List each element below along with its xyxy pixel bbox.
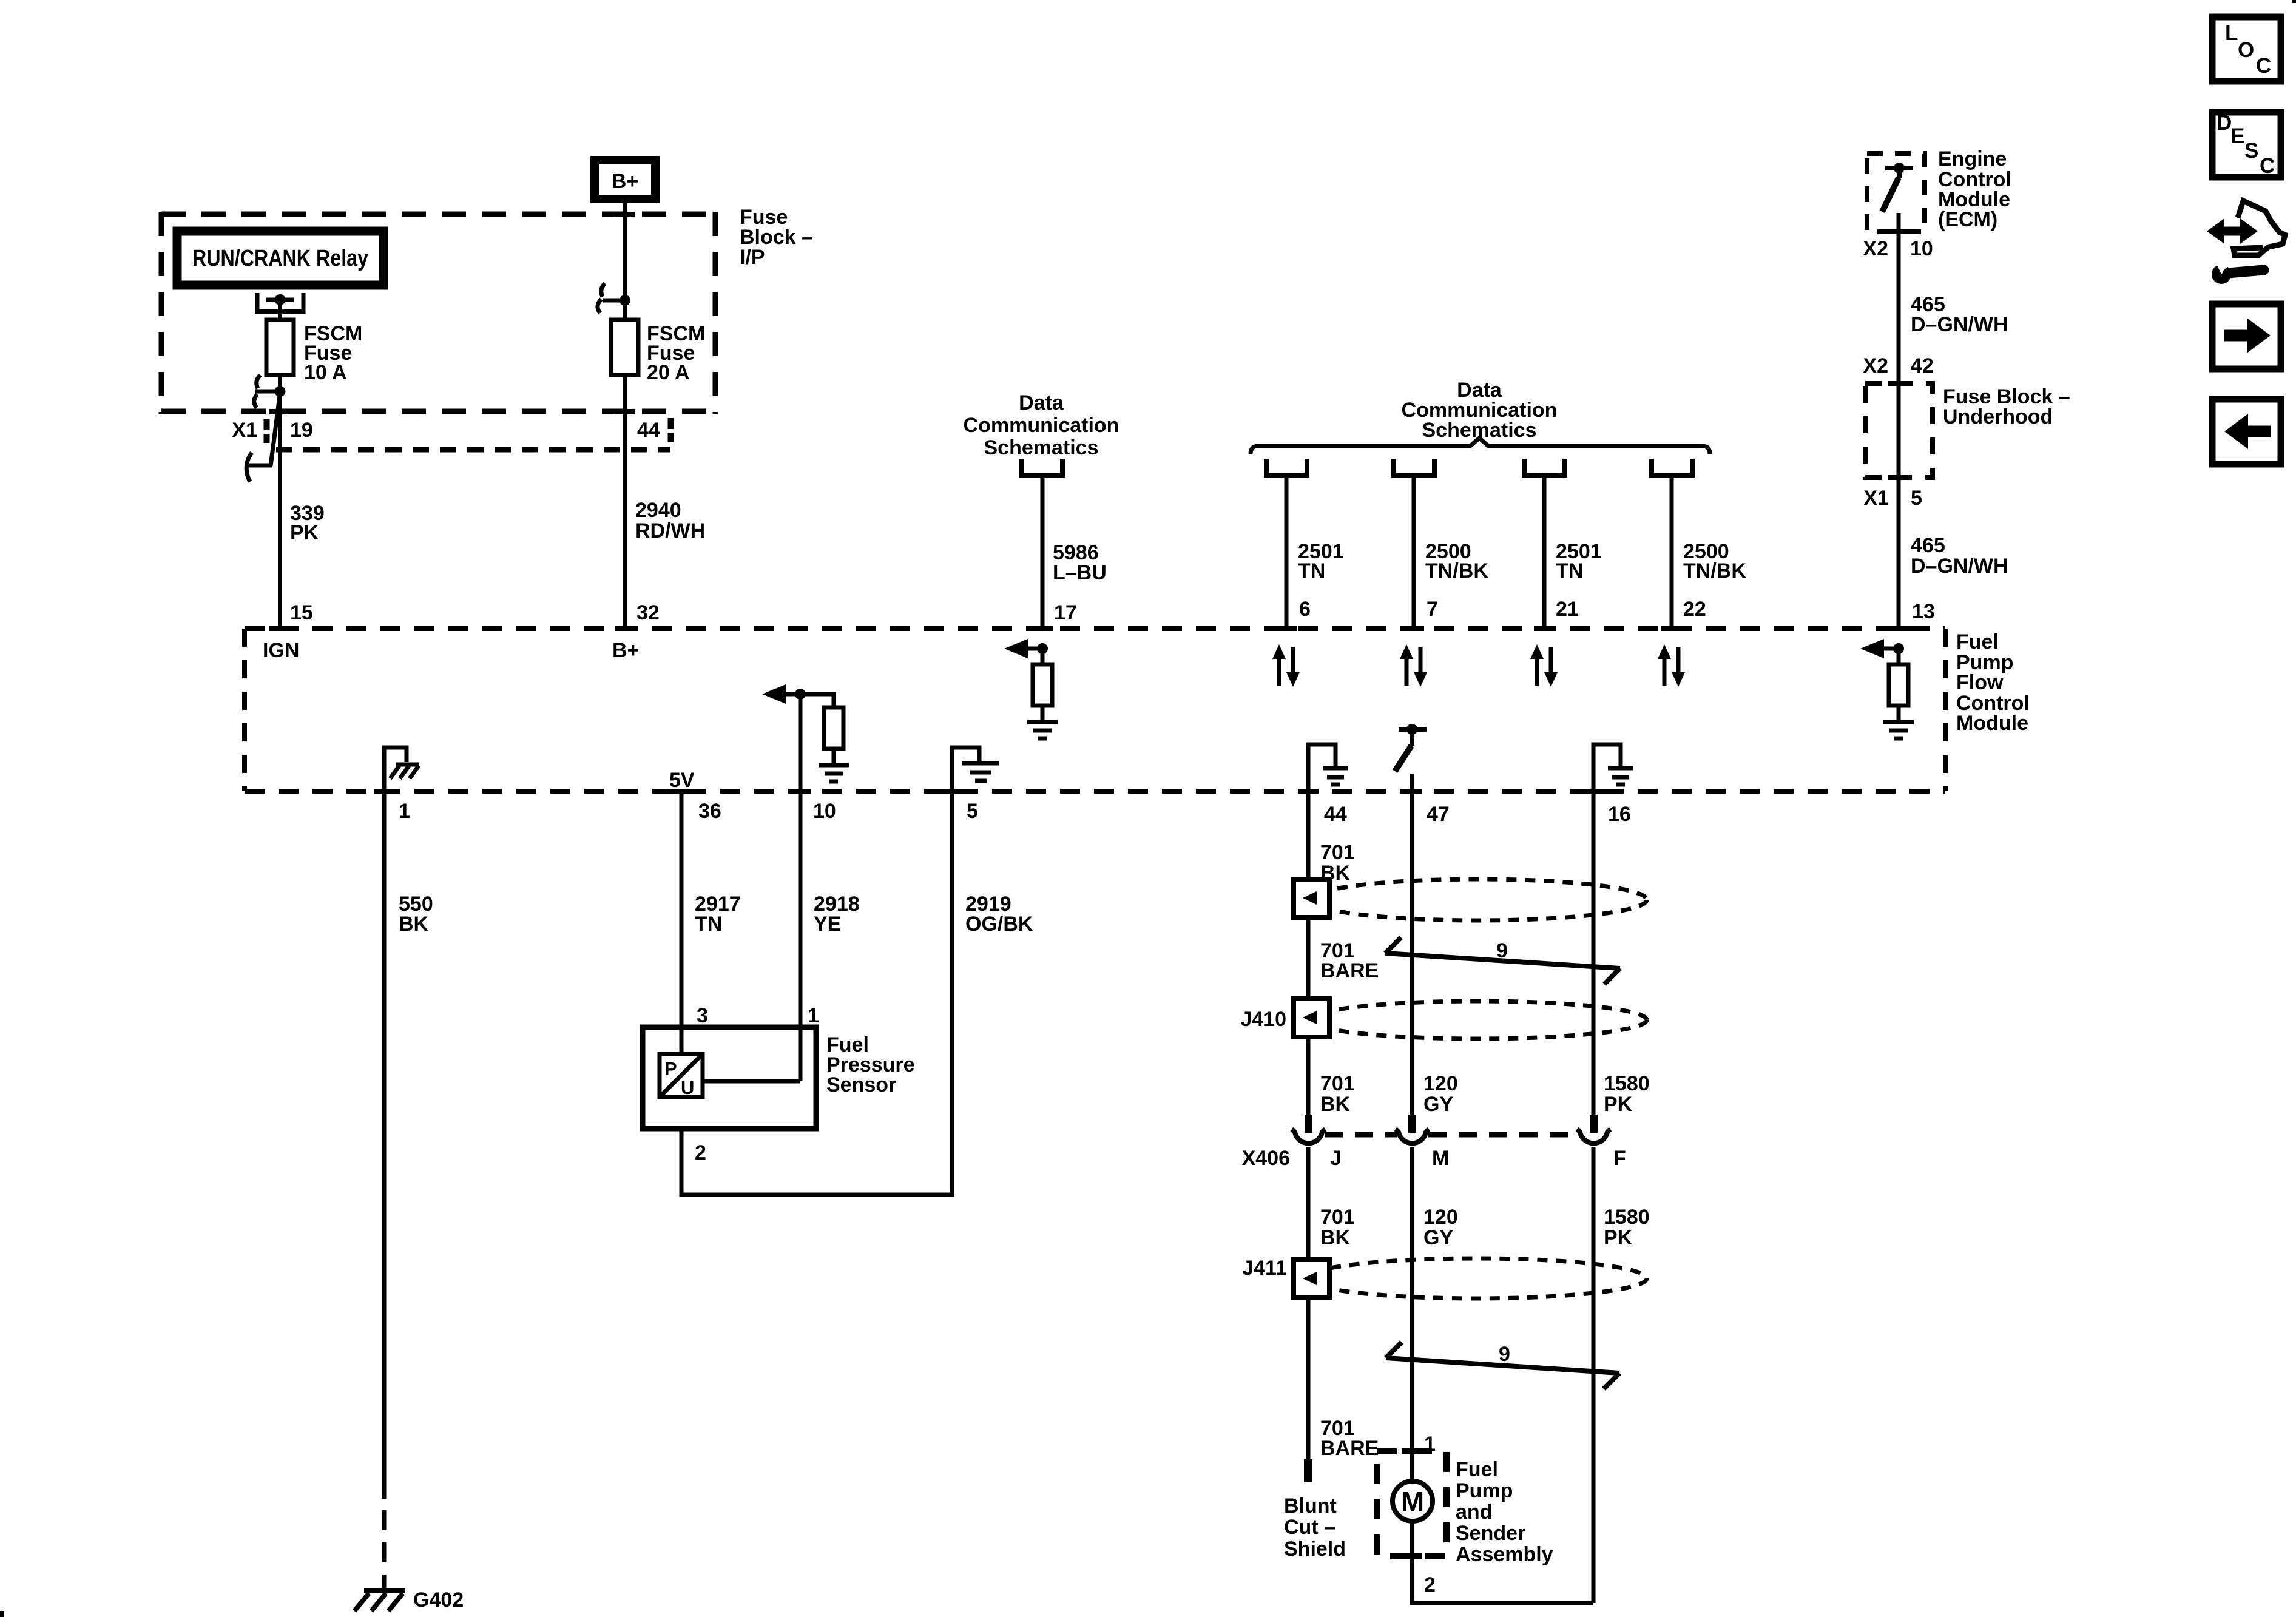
wire resistor to ground [832, 749, 836, 765]
svg-text:15: 15 [290, 601, 313, 624]
wire 1580 PK below X406 [1592, 1147, 1596, 1603]
junction dot below fuse 10A [275, 386, 286, 397]
pin17 junction dot [1037, 643, 1048, 654]
blunt cut tick [1304, 1459, 1312, 1482]
svg-text:O: O [2238, 38, 2254, 62]
svg-text:S: S [2244, 139, 2258, 163]
svg-text:Fuel: Fuel [1456, 1458, 1498, 1481]
wire 2919 OG/BK (pin 5 to sensor pin 2 loop) [681, 791, 952, 1195]
svg-text:X1: X1 [232, 419, 257, 442]
svg-text:BK: BK [1320, 1226, 1351, 1249]
svg-text:47: 47 [1427, 803, 1450, 826]
module name label [1956, 630, 2030, 735]
relay output terminal bracket [257, 293, 303, 312]
svg-text:465: 465 [1911, 534, 1945, 557]
wire 2500 TN/BK (pin 7) [1412, 475, 1416, 629]
svg-text:701: 701 [1320, 1206, 1355, 1229]
ground (pin44 internal) [1323, 768, 1348, 785]
pointer/wrench icon: part outline [2234, 201, 2285, 255]
wire 1580 PK upper [1592, 791, 1596, 1115]
P/U transducer box [660, 1054, 703, 1098]
bidirectional data arrows pin 21 [1530, 644, 1558, 687]
svg-text:10 A: 10 A [304, 361, 347, 384]
svg-text:C: C [2256, 54, 2271, 78]
wire 550 BK solid part [382, 791, 387, 1499]
ground (pin16 internal) [1608, 768, 1633, 785]
svg-text:TN/BK: TN/BK [1425, 559, 1488, 582]
pin47 switch stem [1410, 729, 1414, 746]
pin13 junction dot [1893, 643, 1904, 654]
svg-text:BARE: BARE [1320, 1437, 1379, 1460]
svg-text:J411: J411 [1242, 1257, 1287, 1280]
forward arrow icon box [2212, 304, 2281, 369]
svg-text:16: 16 [1608, 803, 1631, 826]
svg-text:20 A: 20 A [647, 361, 690, 384]
svg-text:Data: Data [1019, 391, 1064, 414]
wire pump pin2 return loop [1412, 1521, 1593, 1603]
X406 terminal pin M [1396, 1115, 1429, 1143]
svg-text:TN: TN [695, 913, 722, 936]
ticks at module top edge pins [269, 626, 1909, 631]
svg-text:3: 3 [697, 1004, 708, 1027]
svg-text:M: M [1401, 1486, 1424, 1517]
svg-text:B+: B+ [612, 639, 639, 662]
svg-text:GY: GY [1423, 1093, 1453, 1116]
svg-text:U: U [681, 1077, 694, 1098]
wire resistor to ground [1897, 706, 1901, 722]
svg-text:10: 10 [1910, 237, 1933, 260]
svg-text:BK: BK [399, 913, 429, 936]
X406 terminal pin F [1577, 1115, 1610, 1143]
pin17 internal: left arrow [1004, 639, 1028, 658]
svg-text:19: 19 [290, 419, 313, 442]
wire 5986 L-BU [1041, 475, 1045, 629]
pointer/wrench icon: double arrow [2207, 218, 2258, 244]
Fuel Pump and Sender Assembly label [1456, 1458, 1553, 1566]
pin47 internal switch T-bar [1399, 727, 1427, 732]
LOC icon box [2212, 17, 2281, 81]
junction dot 20A fuse top [620, 295, 630, 306]
chassis ground (pin1 internal) [390, 765, 419, 778]
tick wire at pump box bottom [1402, 1553, 1422, 1559]
svg-text:D: D [2217, 111, 2232, 135]
svg-text:TN: TN [1298, 559, 1325, 582]
svg-text:36: 36 [698, 800, 721, 823]
svg-text:Sender: Sender [1456, 1522, 1525, 1545]
svg-text:IGN: IGN [263, 639, 299, 662]
svg-text:J410: J410 [1240, 1008, 1286, 1031]
svg-text:X1: X1 [1863, 487, 1889, 510]
svg-text:1580: 1580 [1604, 1206, 1650, 1229]
svg-text:44: 44 [637, 419, 660, 442]
Fuse Block - I/P dashed box [161, 212, 715, 414]
svg-text:5: 5 [1911, 487, 1922, 510]
svg-text:BK: BK [1320, 1093, 1351, 1116]
tick wire at pump box top [1402, 1448, 1422, 1454]
svg-text:Underhood: Underhood [1943, 405, 2053, 428]
ground (pin13 internal) [1883, 722, 1914, 738]
resistor R2 (terminating, pin13) [1889, 664, 1908, 706]
svg-text:J: J [1330, 1147, 1342, 1170]
svg-text:OG/BK: OG/BK [965, 913, 1033, 936]
pin10 internal: left arrow [762, 684, 786, 704]
svg-text:701: 701 [1320, 1072, 1355, 1095]
ECM switch dot [1894, 163, 1905, 174]
shield ellipse 2 [1309, 1001, 1647, 1039]
svg-text:(ECM): (ECM) [1938, 208, 1997, 231]
svg-text:F: F [1613, 1147, 1626, 1170]
tick wire 465 at ECM box bottom [1888, 229, 1909, 234]
svg-text:P: P [664, 1058, 677, 1079]
tick wire2940 at fuse block top edge [615, 212, 635, 217]
wire 2501 TN (pin 21) [1542, 475, 1547, 629]
svg-text:1: 1 [399, 800, 410, 823]
ground (pin5 internal) [962, 763, 999, 781]
resistor R3 (pull-up, pin10) [824, 707, 843, 749]
svg-text:6: 6 [1299, 598, 1311, 621]
shield ellipse 3 [1306, 1258, 1647, 1298]
svg-text:I/P: I/P [740, 246, 765, 269]
ECM U1 dashed box [1867, 154, 1925, 232]
twisted pair arrow 9 (lower) [1386, 1342, 1619, 1389]
wire 2918 YE (pin 10 to sensor pin 1) [799, 791, 803, 1081]
terminal bar left of 20A junction [603, 299, 625, 303]
svg-text:5V: 5V [669, 769, 695, 792]
pin47 switch dot [1406, 724, 1417, 735]
svg-text:BARE: BARE [1320, 959, 1379, 982]
ECM label [1938, 147, 2011, 231]
shield ellipse 1 [1309, 879, 1647, 920]
wire 2501 TN (pin 6) [1285, 475, 1289, 629]
svg-text:5: 5 [967, 800, 978, 823]
svg-text:42: 42 [1911, 354, 1934, 377]
svg-text:7: 7 [1427, 598, 1438, 621]
svg-text:E: E [2230, 124, 2244, 148]
Fuel Pump and Sender Assembly dashed box [1377, 1451, 1447, 1556]
terminal bar left of junction [255, 390, 280, 394]
tick wire339 at fuse block bottom edge [269, 409, 290, 414]
pin10 junction dot [795, 689, 806, 700]
wire 550 BK dashed part [382, 1510, 387, 1590]
page corner mark top-right [2292, 0, 2296, 3]
svg-text:Shield: Shield [1284, 1538, 1346, 1561]
svg-text:TN: TN [1556, 559, 1583, 582]
svg-text:1: 1 [808, 1004, 819, 1027]
svg-text:120: 120 [1423, 1206, 1458, 1229]
wire 701 BK below X406 [1306, 1147, 1311, 1459]
off-page bracket serial data wire 2 [1394, 459, 1434, 475]
clip hooks at 10A terminal [257, 375, 260, 388]
svg-text:Pump: Pump [1456, 1479, 1513, 1502]
ground (pin10 internal) [819, 765, 849, 781]
svg-text:Engine: Engine [1938, 147, 2007, 170]
splice J411 [1242, 1257, 1329, 1298]
off-page bracket serial data wire 3 [1524, 459, 1565, 475]
pin44 internal ground wire [1308, 744, 1335, 791]
svg-text:701: 701 [1320, 841, 1355, 864]
svg-text:X406: X406 [1242, 1147, 1290, 1170]
svg-text:Blunt: Blunt [1284, 1494, 1337, 1517]
module dashed box left edge [242, 629, 247, 791]
junction dot relay terminal [275, 294, 286, 305]
ticks at module bottom edge pins [374, 789, 1604, 794]
DESC icon box [2212, 111, 2281, 178]
svg-text:Flow: Flow [1956, 671, 2004, 694]
svg-text:PK: PK [1604, 1093, 1633, 1116]
Fuse Block - I/P label [740, 206, 813, 269]
fuse F2 FSCM Fuse 20A [611, 320, 638, 375]
module dashed box right edge [1943, 629, 1948, 791]
svg-text:2: 2 [695, 1141, 706, 1164]
B+ power symbol box [595, 160, 655, 199]
svg-text:D–GN/WH: D–GN/WH [1911, 555, 2008, 578]
Fuse Block Underhood dashed box [1865, 383, 1933, 478]
tick wire 465 at underhood box bottom [1888, 475, 1909, 480]
svg-text:22: 22 [1683, 598, 1706, 621]
pin5 internal ground wire [952, 748, 979, 791]
wire 120 GY below X406 [1410, 1147, 1414, 1481]
resistor R1 (terminating, pin17) [1033, 664, 1052, 706]
off-page bracket serial data wire 4 [1652, 459, 1692, 475]
wire 2940 vertical [623, 375, 627, 629]
wire dot to resistor (pin10) [800, 694, 834, 707]
twisted pair arrow 9 (upper) [1385, 937, 1620, 984]
wire dot to resistor [1041, 649, 1045, 664]
svg-text:G402: G402 [413, 1588, 464, 1612]
svg-text:Module: Module [1956, 712, 2028, 735]
sensor internal horizontal wire pin1 [703, 1079, 800, 1084]
svg-text:X2: X2 [1863, 354, 1888, 377]
pin13 internal: left arrow [1860, 639, 1884, 658]
svg-text:21: 21 [1556, 598, 1579, 621]
svg-text:120: 120 [1423, 1072, 1458, 1095]
svg-text:Fuel: Fuel [1956, 630, 1999, 653]
wire B+ to FSCM Fuse 20A [623, 203, 627, 320]
svg-text:L–BU: L–BU [1053, 561, 1107, 584]
svg-text:C: C [2260, 154, 2275, 178]
svg-text:10: 10 [813, 800, 836, 823]
ground G402 [354, 1588, 464, 1612]
wire 339 vertical [278, 391, 282, 629]
svg-text:and: and [1456, 1501, 1492, 1524]
svg-text:RD/WH: RD/WH [635, 519, 705, 542]
svg-text:X2: X2 [1863, 237, 1888, 260]
svg-text:32: 32 [636, 601, 660, 624]
clip hooks at 20A fuse top [601, 283, 605, 297]
pin16 internal ground wire [1593, 744, 1621, 791]
off-page bracket serial data wire 1 [1266, 459, 1307, 475]
svg-text:M: M [1432, 1147, 1449, 1170]
Fuel Pressure Sensor label [826, 1033, 915, 1096]
fuse F1 FSCM Fuse 10A [266, 320, 294, 375]
svg-text:9: 9 [1496, 939, 1508, 962]
svg-text:13: 13 [1912, 600, 1935, 623]
tick wire2940 at fuse block bottom edge [615, 409, 635, 414]
ECM switch stem [1897, 168, 1902, 178]
pin1 internal ground wire [384, 748, 407, 791]
svg-text:RUN/CRANK Relay: RUN/CRANK Relay [192, 246, 368, 271]
bidirectional data arrows pin 6 [1272, 644, 1300, 687]
svg-text:2: 2 [1424, 1573, 1436, 1596]
Blunt Cut Shield label [1284, 1494, 1346, 1561]
svg-text:Cut –: Cut – [1284, 1516, 1335, 1539]
svg-text:PK: PK [1604, 1226, 1633, 1249]
wire relay to fuse 10A [278, 300, 282, 320]
fuel pump motor M1 [1393, 1481, 1433, 1521]
svg-text:2940: 2940 [635, 499, 681, 522]
svg-text:L: L [2225, 21, 2238, 45]
wire 2917 TN (pin 36 to sensor pin 3) [680, 791, 684, 1054]
svg-text:17: 17 [1054, 601, 1077, 624]
svg-text:PK: PK [290, 521, 319, 544]
lower contact bar [246, 464, 272, 468]
bidirectional data arrows pin 7 [1400, 644, 1427, 687]
wire pin47 inside module [1410, 774, 1414, 791]
svg-text:1580: 1580 [1604, 1072, 1650, 1095]
ground (pin17 internal) [1027, 722, 1058, 738]
wire fuse 10A to junction [278, 375, 282, 391]
ECM internal switch T-bar [1885, 166, 1913, 170]
RUN/CRANK Relay box [177, 231, 383, 285]
switch blade at X1 connector [271, 393, 280, 466]
wire 2500 TN/BK (pin 22) [1670, 475, 1674, 629]
connector divider right of 44 [668, 418, 674, 429]
svg-text:TN/BK: TN/BK [1683, 559, 1746, 582]
ECM switch blade [1882, 178, 1899, 212]
wire 701 BK upper [1306, 791, 1311, 1115]
module dashed box top edge [245, 626, 1945, 631]
svg-text:Schematics: Schematics [984, 436, 1099, 459]
Fuse Block Underhood label [1943, 385, 2070, 428]
bidirectional data arrows pin 22 [1658, 644, 1685, 687]
wire dot to resistor [1897, 649, 1901, 664]
svg-text:YE: YE [814, 913, 841, 936]
wire 120 GY upper [1410, 791, 1414, 1115]
connector divider X1 [264, 419, 270, 430]
pin47 switch blade [1395, 746, 1411, 771]
off-page bracket DC1 [1022, 459, 1062, 475]
svg-text:Sensor: Sensor [826, 1073, 896, 1096]
module dashed box bottom edge [245, 789, 1945, 794]
svg-text:Assembly: Assembly [1456, 1543, 1553, 1566]
page corner mark bottom-left [0, 1611, 4, 1617]
wire pin10 inside module [799, 694, 803, 791]
splice square S1 [1294, 879, 1329, 917]
wire resistor to ground [1041, 706, 1045, 722]
splice J410 [1240, 999, 1329, 1037]
wire 465 D-GN/WH from ECM [1897, 213, 1901, 629]
relay terminal T-bar [266, 298, 294, 302]
clip hook at lower contact [246, 453, 252, 482]
svg-text:B+: B+ [612, 170, 638, 193]
Fuel Pressure Sensor B1 box [643, 1027, 816, 1129]
svg-text:GY: GY [1423, 1226, 1453, 1249]
horizontal brace [1251, 438, 1710, 454]
X406 terminal pin J [1292, 1115, 1325, 1143]
svg-text:9: 9 [1499, 1343, 1510, 1366]
back arrow icon box [2212, 399, 2281, 464]
pointer/wrench icon: wrench [2212, 260, 2264, 284]
connector X1 row dashed line [276, 447, 670, 453]
connector X406 dashed line [1325, 1132, 1397, 1138]
svg-text:44: 44 [1324, 803, 1347, 826]
svg-text:D–GN/WH: D–GN/WH [1911, 313, 2008, 336]
tick wire 465 at underhood box top [1888, 381, 1909, 386]
svg-text:Communication: Communication [964, 414, 1119, 437]
